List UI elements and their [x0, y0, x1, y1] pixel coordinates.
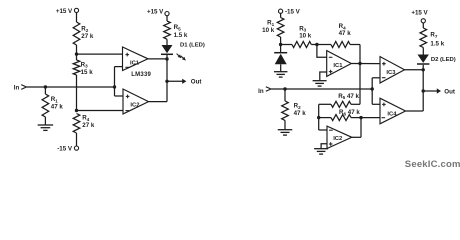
node R5/R6/IC2- junction — [317, 116, 320, 119]
svg-text:47 k: 47 k — [294, 110, 307, 117]
wire — [311, 44, 317, 46]
wire — [351, 117, 361, 119]
node In (left input) — [14, 84, 27, 91]
svg-text:R4: R4 — [82, 115, 89, 122]
op-amp IC2 (LM339) — [123, 89, 149, 114]
wire — [321, 144, 327, 149]
wire — [77, 110, 124, 112]
node clamp junction — [279, 43, 282, 46]
wire — [284, 120, 286, 129]
svg-text:IC3: IC3 — [386, 70, 396, 76]
svg-text:27 k: 27 k — [82, 122, 95, 129]
resistor R1 10k (right) — [262, 18, 284, 38]
svg-text:R7: R7 — [430, 32, 437, 39]
wire — [422, 65, 424, 111]
svg-text:R1: R1 — [267, 20, 274, 27]
wire — [361, 117, 380, 119]
ground (below R1) — [38, 125, 54, 130]
svg-text:15 k: 15 k — [81, 69, 94, 76]
power +15V terminal (left divider) — [56, 8, 79, 15]
svg-text:In: In — [258, 88, 264, 95]
svg-text:+15 V: +15 V — [147, 8, 164, 15]
resistor R4 47k (right) — [331, 23, 351, 48]
wire — [76, 75, 78, 111]
op-amp IC1 (LM339) — [123, 47, 152, 78]
svg-text:+15 V: +15 V — [56, 8, 73, 15]
watermark SeekIC.com — [405, 159, 460, 170]
svg-text:47 k: 47 k — [339, 30, 352, 37]
power -15V terminal (left divider) — [57, 146, 78, 153]
svg-text:27 k: 27 k — [81, 33, 94, 40]
wire — [319, 129, 327, 131]
svg-text:R2: R2 — [294, 103, 301, 110]
svg-text:1.5 k: 1.5 k — [174, 32, 188, 39]
wire — [371, 78, 373, 105]
op-amp IC1 (right) — [327, 51, 352, 77]
op-amp IC3 — [380, 57, 405, 83]
wire — [167, 79, 186, 84]
wire — [148, 58, 167, 60]
node In/IC3-/IC4+ junction — [371, 87, 374, 90]
svg-text:10 k: 10 k — [299, 33, 312, 40]
resistor R4 27k — [73, 114, 95, 134]
svg-text:R3: R3 — [299, 25, 306, 32]
wire — [149, 101, 168, 103]
wire — [280, 37, 282, 45]
label Out (right) — [444, 88, 455, 95]
resistor R1 47k — [42, 94, 63, 117]
svg-text:Out: Out — [444, 88, 455, 95]
wire — [423, 88, 441, 93]
op-amp IC2 (right) — [327, 126, 352, 148]
resistor R3 10k (right) — [292, 25, 312, 47]
svg-text:R5 47 k: R5 47 k — [338, 93, 359, 100]
resistor R6 47k (right) — [331, 109, 360, 121]
node Out (right) — [422, 89, 425, 92]
node In/comparator junction — [113, 85, 116, 88]
wire — [76, 13, 78, 23]
wire — [351, 103, 360, 105]
diode D1 LED — [161, 43, 205, 61]
svg-text:-15 V: -15 V — [57, 146, 73, 153]
svg-text:R1: R1 — [51, 96, 58, 103]
wire — [319, 117, 331, 119]
power +15V terminal (above R7) — [411, 9, 428, 23]
svg-text:Out: Out — [191, 79, 202, 86]
svg-text:R5: R5 — [174, 24, 181, 31]
wire — [284, 89, 286, 101]
svg-text:D2 (LED): D2 (LED) — [431, 57, 456, 63]
wire — [115, 66, 123, 68]
svg-text:IC1: IC1 — [333, 63, 343, 69]
wire — [114, 67, 116, 96]
wire — [166, 39, 168, 45]
svg-text:R3: R3 — [81, 61, 88, 68]
wire — [320, 72, 327, 80]
ground (below R2 right) — [278, 130, 293, 135]
resistor R2 47k (right) — [282, 101, 307, 120]
wire — [317, 45, 327, 58]
label Out (left) — [191, 79, 202, 86]
wire — [350, 44, 360, 46]
wire — [360, 118, 362, 138]
wire — [76, 133, 78, 146]
resistor R7 1.5k — [420, 28, 445, 48]
resistor R3 15k — [73, 60, 93, 76]
svg-text:47 k: 47 k — [51, 104, 64, 111]
resistor R2 27k — [73, 22, 94, 45]
wire — [77, 53, 123, 55]
svg-text:D1 (LED): D1 (LED) — [180, 43, 205, 49]
svg-text:IC2: IC2 — [333, 136, 342, 142]
svg-text:In: In — [14, 84, 20, 91]
svg-text:R6 47 k: R6 47 k — [339, 109, 360, 116]
wire — [405, 69, 424, 71]
wire — [318, 104, 320, 130]
wire — [281, 44, 292, 46]
ground (clamp diode) — [274, 72, 288, 77]
node R6/IC2 output junction — [359, 116, 362, 119]
wire — [372, 77, 380, 79]
wire — [76, 45, 78, 60]
wire — [422, 48, 424, 55]
svg-text:SeekIC.com: SeekIC.com — [405, 159, 460, 170]
ground (IC2 + input right) — [314, 149, 328, 154]
diode D3 clamp — [274, 45, 287, 65]
wire — [372, 103, 380, 105]
svg-text:IC2: IC2 — [130, 103, 139, 109]
wire — [44, 117, 46, 125]
node D1/IC1 output junction — [165, 57, 168, 60]
svg-text:-15 V: -15 V — [285, 8, 301, 15]
svg-text:+15 V: +15 V — [411, 9, 428, 16]
wire — [280, 13, 282, 17]
wire — [319, 103, 331, 105]
wire — [26, 86, 114, 88]
wire — [352, 136, 361, 138]
wire — [280, 64, 282, 71]
node In/R2 junction (right) — [283, 87, 286, 90]
svg-text:LM339: LM339 — [131, 72, 151, 78]
svg-text:R2: R2 — [81, 26, 88, 33]
diode D2 LED — [417, 55, 456, 65]
svg-text:IC4: IC4 — [387, 111, 397, 117]
wire — [422, 23, 424, 28]
node R3/R4 junction — [315, 43, 318, 46]
wire — [44, 87, 46, 94]
op-amp IC4 — [380, 98, 406, 124]
node Out (left) — [165, 80, 168, 83]
svg-text:10 k: 10 k — [262, 27, 275, 34]
node B (R3/R4 junction) — [75, 109, 78, 112]
wire — [271, 88, 372, 90]
wire — [406, 110, 424, 112]
svg-text:IC1: IC1 — [130, 61, 140, 67]
power -15V terminal (right) — [279, 8, 301, 15]
ground (IC1 + input) — [313, 81, 327, 86]
wire — [359, 45, 361, 105]
wire — [115, 95, 124, 97]
power +15V terminal (above R5) — [147, 8, 169, 15]
node In/R1 junction — [44, 85, 47, 88]
node A (R2/R3 junction) — [75, 52, 78, 55]
node D2/IC3 output junction — [422, 68, 425, 71]
svg-text:1.5 k: 1.5 k — [430, 40, 444, 47]
node In (right input) — [258, 87, 271, 95]
wire — [317, 44, 331, 46]
resistor R5 47k (right) — [331, 93, 360, 108]
node IC1 output junction (right) — [358, 62, 361, 65]
wire — [351, 63, 380, 65]
resistor R5 1.5k — [164, 21, 188, 39]
wire — [166, 16, 168, 21]
wire — [166, 55, 168, 102]
